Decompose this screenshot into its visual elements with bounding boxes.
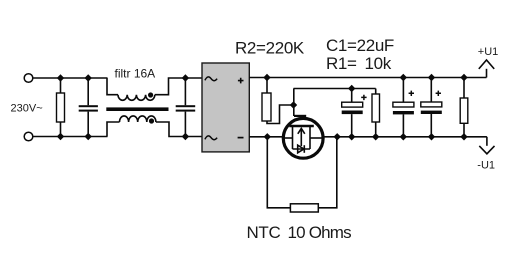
node top rail / input resistor [57, 74, 64, 81]
polarity dot top winding [148, 92, 153, 97]
svg-text:10k: 10k [365, 54, 392, 73]
thermistor NTC [290, 204, 318, 212]
mosfet substrate arrow [298, 128, 305, 146]
node bottom rail / cap X [85, 133, 92, 140]
wire bottom rail: bridge to mosfet [249, 136, 284, 138]
mosfet source vertical [309, 126, 311, 149]
wire top rail left [33, 77, 108, 79]
mosfet source stub [310, 137, 323, 139]
resistor input bleeder [57, 78, 65, 137]
capacitor C2 electrolytic [393, 78, 414, 137]
capacitor C3 electrolytic [421, 78, 442, 137]
wire gate vertical [293, 89, 295, 117]
mosfet drain stub [284, 137, 293, 139]
svg-text:+U1: +U1 [478, 46, 499, 58]
node bottom rail / ntc left [264, 133, 271, 140]
terminal input bottom [24, 132, 33, 141]
mosfet drain vertical [292, 126, 294, 149]
node top rail / C2 [400, 74, 407, 81]
terminal input top [24, 74, 33, 83]
svg-text:filtr 16A: filtr 16A [115, 66, 156, 80]
wire bottom rail left [33, 136, 108, 138]
node bottom rail / bleeder [460, 133, 467, 140]
node top rail / cap 2 [182, 74, 189, 81]
node bottom rail / C3 [428, 133, 435, 140]
svg-text:R1=: R1= [326, 54, 357, 73]
svg-text:NTC: NTC [247, 223, 281, 242]
node gate junction [290, 101, 297, 108]
node bottom rail / cap 2 [182, 133, 189, 140]
node bottom rail / R1 [372, 133, 379, 140]
node top rail / cap X [85, 74, 92, 81]
polarity dot bottom winding [149, 118, 154, 123]
node bottom rail / C1 [348, 133, 355, 140]
output arrow -U1 [479, 137, 494, 154]
transistor Q1 mosfet body [283, 118, 323, 158]
mosfet channel bar [289, 125, 314, 127]
resistor R2 [262, 78, 294, 124]
resistor output bleeder [460, 78, 468, 137]
node top rail / R2 [263, 74, 270, 81]
svg-text:C1=22uF: C1=22uF [326, 36, 394, 55]
mosfet gate bar [294, 115, 306, 117]
node top rail / bleeder [460, 74, 467, 81]
svg-text:-U1: -U1 [477, 160, 495, 172]
wire bottom rail: mosfet to right end [323, 136, 487, 138]
wire gate node horizontal [294, 88, 376, 90]
wire top rail right [249, 77, 487, 79]
inductor L1 top winding of choke [107, 78, 202, 100]
capacitor X after choke [176, 78, 196, 137]
node gate wire / C1 [348, 85, 355, 92]
mosfet body diode [298, 145, 305, 153]
resistor R1 [372, 89, 380, 137]
choke core bar [106, 107, 168, 111]
output arrow +U1 [479, 60, 494, 78]
node bottom rail / ntc right [334, 133, 341, 140]
node bottom rail / C2 [400, 133, 407, 140]
svg-text:230V~: 230V~ [11, 103, 43, 115]
capacitor X input [79, 78, 98, 137]
wire ntc loop [267, 137, 337, 208]
svg-text:R2=220K: R2=220K [235, 39, 305, 58]
node bottom rail / input resistor [57, 133, 64, 140]
capacitor C1 electrolytic [342, 89, 367, 137]
node top rail / C3 [428, 74, 435, 81]
bridge rectifier B1 [202, 63, 249, 152]
inductor L2 bottom winding of choke [107, 116, 202, 137]
svg-text:10 Ohms: 10 Ohms [288, 223, 352, 242]
mosfet bottom link [293, 148, 311, 150]
